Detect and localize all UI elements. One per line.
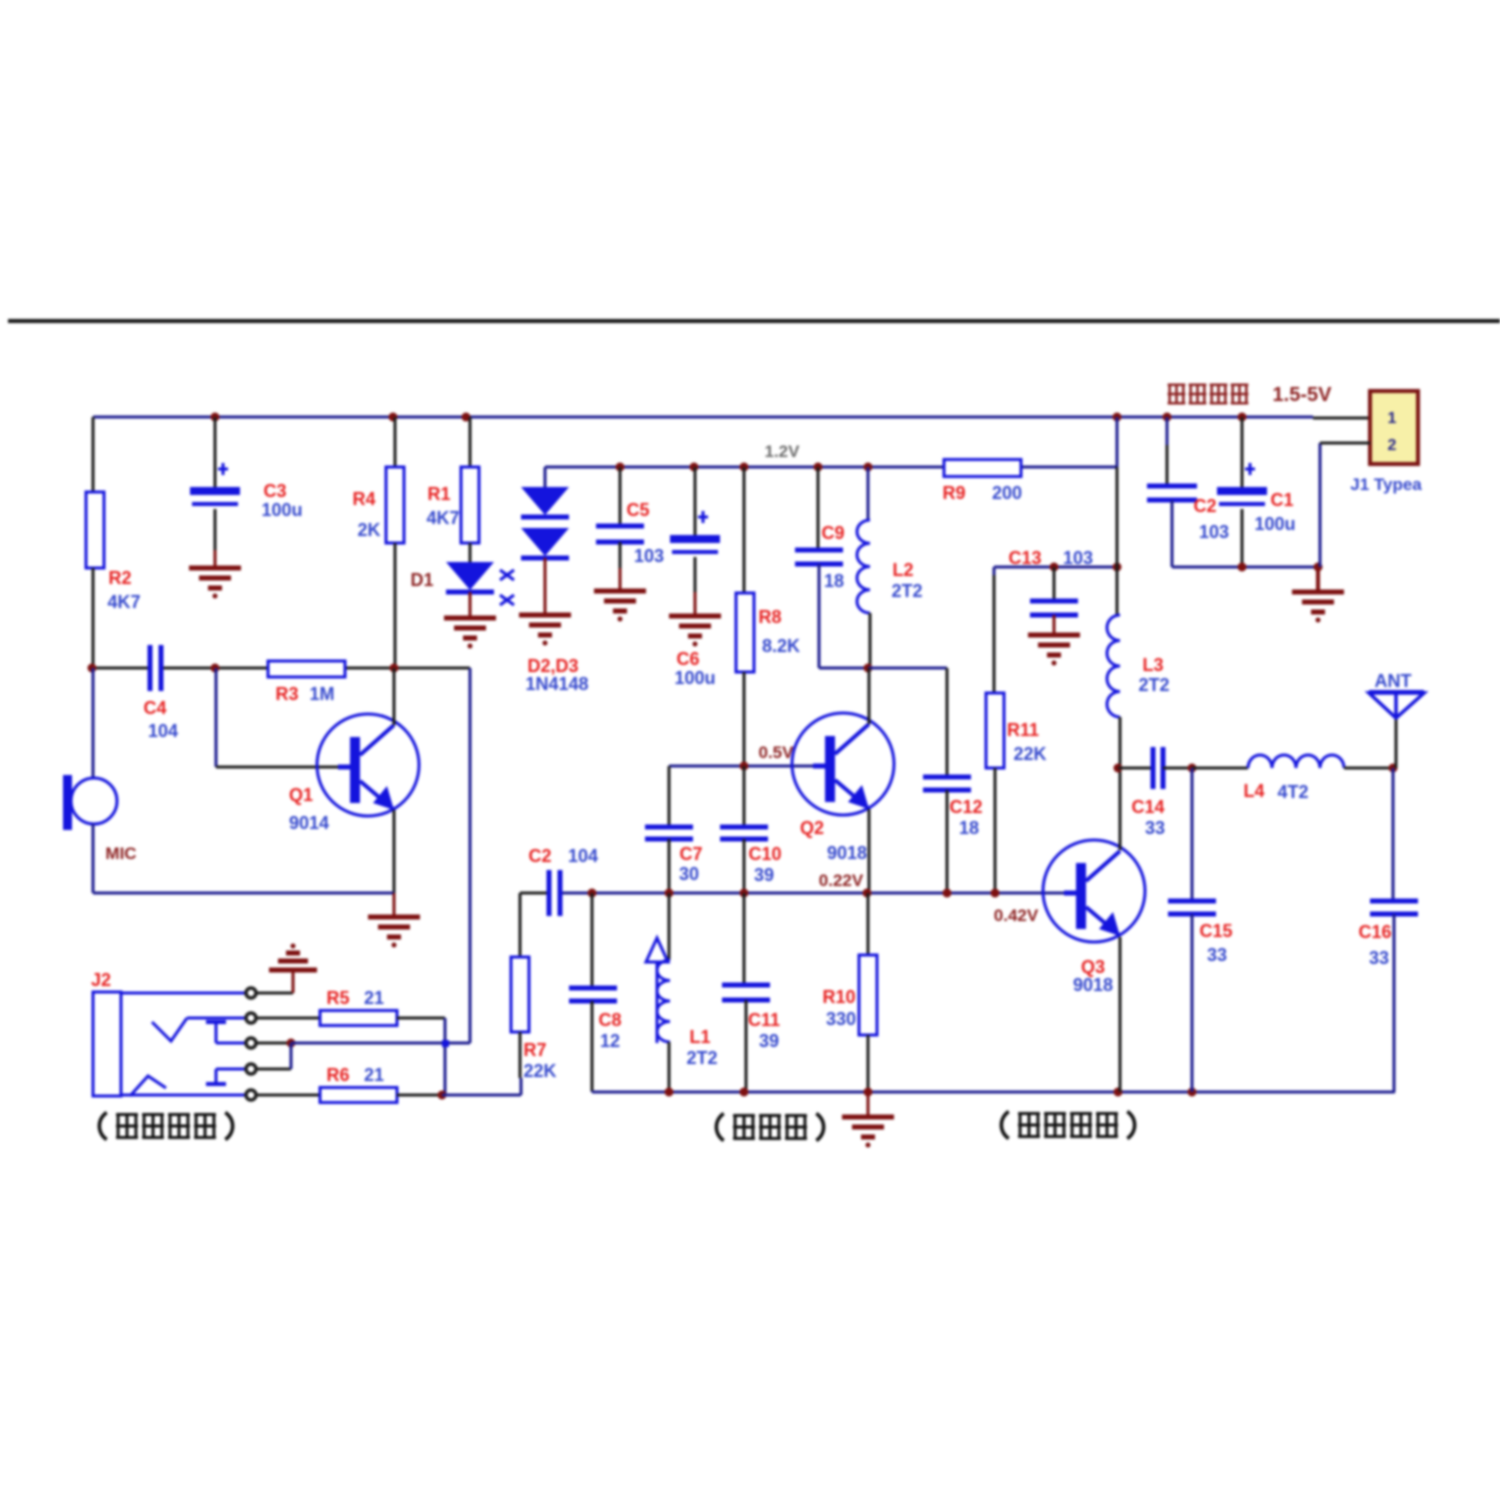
svg-text:330: 330 (826, 1009, 856, 1029)
capacitor C15 (1168, 901, 1233, 965)
wire Q2 emitter (819, 809, 869, 893)
svg-text:R10: R10 (822, 987, 855, 1007)
ground C3 (189, 568, 241, 599)
svg-text:C1: C1 (1270, 490, 1293, 510)
svg-text:C5: C5 (626, 500, 649, 520)
svg-text:1: 1 (1388, 410, 1397, 427)
svg-text:C16: C16 (1358, 922, 1391, 942)
svg-text:R4: R4 (352, 489, 375, 509)
label audio input (99, 1112, 232, 1139)
svg-text:0.5V: 0.5V (759, 743, 795, 762)
wire osc emitter row (520, 889, 1064, 898)
node jack cross (442, 1040, 449, 1047)
wire C9 top lead (817, 467, 820, 549)
ground battery (1292, 567, 1344, 623)
capacitor C7 (645, 766, 703, 893)
capacitor C10 (720, 766, 782, 893)
wire MIC bottom (93, 824, 394, 893)
wire C13 top lead (1053, 567, 1056, 601)
svg-text:100u: 100u (261, 500, 302, 520)
svg-text:R8: R8 (758, 607, 781, 627)
resistor R6 (320, 1065, 397, 1103)
svg-text:39: 39 (759, 1031, 779, 1051)
wire R11 top lead (993, 575, 996, 693)
svg-text:C14: C14 (1131, 797, 1164, 817)
transistor Q2 (792, 713, 894, 863)
antenna ANT (1369, 671, 1424, 768)
connector J1 (1320, 391, 1422, 494)
wire L1 top lead (668, 893, 671, 960)
wire 1.2V rail (545, 442, 1117, 467)
capacitor C11 (722, 985, 780, 1051)
wire C3 bottom lead (214, 509, 217, 568)
svg-text:R1: R1 (427, 484, 450, 504)
wire audio feed vertical (469, 668, 472, 1043)
svg-text:Q3: Q3 (1081, 957, 1105, 977)
inductor L4 (1243, 755, 1344, 802)
resistor R4 (352, 467, 404, 543)
wire C5 bottom lead (619, 542, 622, 591)
diode D1 LED (410, 562, 514, 605)
resistor R10 (822, 955, 877, 1035)
svg-text:L1: L1 (689, 1027, 710, 1047)
wire C6 bottom lead (694, 557, 697, 616)
svg-text:R2: R2 (108, 568, 131, 588)
svg-text:2: 2 (1388, 437, 1397, 454)
wire D2 top (544, 467, 547, 487)
wire pin4 (256, 1043, 291, 1069)
resistor R7 (511, 957, 557, 1081)
svg-text:4T2: 4T2 (1277, 782, 1308, 802)
capacitor C14 (1131, 747, 1165, 838)
ground main (842, 1092, 894, 1148)
svg-text:33: 33 (1207, 945, 1227, 965)
svg-text:39: 39 (754, 865, 774, 885)
wire battery drop (1116, 417, 1119, 615)
capacitor C4 (143, 645, 178, 741)
resistor R2 (86, 492, 141, 612)
svg-text:ANT: ANT (1375, 671, 1412, 691)
capacitor C2 battery (1147, 486, 1229, 542)
svg-text:C9: C9 (821, 523, 844, 543)
ground D1 (444, 618, 496, 649)
svg-text:12: 12 (600, 1031, 620, 1051)
wire C16 top lead (1392, 768, 1395, 901)
svg-text:1.5-5V: 1.5-5V (1273, 384, 1333, 406)
svg-text:22K: 22K (523, 1061, 556, 1081)
wire R6 to mix (397, 1078, 521, 1100)
resistor R3 (268, 661, 345, 704)
wire R4 bottom lead (394, 543, 397, 668)
wire R5 to mix (397, 1018, 445, 1095)
node top rail junctions (211, 413, 1247, 422)
svg-text:R11: R11 (1007, 720, 1039, 740)
svg-text:103: 103 (1199, 522, 1229, 542)
svg-text:D2,D3: D2,D3 (527, 656, 578, 676)
wire C13 bottom lead (1053, 615, 1056, 635)
svg-text:C2: C2 (1193, 496, 1216, 516)
label battery voltage (1168, 384, 1332, 406)
svg-text:33: 33 (1369, 948, 1389, 968)
wire R1-D1 (469, 543, 472, 562)
svg-text:C8: C8 (598, 1010, 621, 1030)
wire C11 top lead (743, 893, 746, 985)
wire Q1 base (216, 668, 338, 767)
svg-text:C4: C4 (143, 698, 166, 718)
wire Q1 collector (393, 668, 396, 725)
label RF PA stage (1001, 1111, 1134, 1138)
capacitor C1 (1217, 463, 1296, 534)
wire Q2 base row (669, 743, 826, 771)
wire L2 bottom lead (864, 613, 873, 673)
pin J2-2 (246, 1013, 256, 1023)
resistor R5 (320, 988, 397, 1026)
jack contact lower throw (206, 1069, 246, 1084)
resistor R9 (942, 460, 1022, 504)
wire Q3 collector (1119, 768, 1122, 850)
ground C6 (669, 616, 721, 647)
wire pin1 to ground (256, 972, 293, 993)
svg-text:100u: 100u (1254, 514, 1295, 534)
wire mic coupling row (93, 667, 470, 670)
ground D2D3 (519, 615, 571, 646)
svg-text:22K: 22K (1013, 744, 1046, 764)
wire R4 top lead (394, 417, 397, 467)
resistor R11 (986, 693, 1047, 768)
top border line (8, 319, 1500, 323)
svg-text:J1 Typea: J1 Typea (1350, 475, 1422, 494)
label oscillator stage (716, 1113, 823, 1140)
pin J2-1 (246, 988, 256, 998)
svg-text:C2: C2 (528, 846, 551, 866)
wire R8 bottom lead (743, 672, 746, 766)
inductor L2 (857, 520, 923, 613)
wire J1 pin2 drop (1319, 443, 1322, 567)
pin J2-5 (246, 1090, 256, 1100)
wire C5 top lead (619, 467, 622, 526)
svg-text:21: 21 (364, 988, 384, 1008)
capacitor C16 (1358, 901, 1418, 968)
wire R7 top lead (519, 893, 522, 957)
wire L2 top lead (867, 467, 870, 520)
svg-text:R7: R7 (523, 1040, 546, 1060)
wire pin3 (256, 1039, 470, 1048)
capacitor C3 (190, 463, 303, 520)
svg-text:C10: C10 (748, 844, 781, 864)
svg-text:C7: C7 (679, 844, 702, 864)
svg-text:9014: 9014 (289, 813, 329, 833)
svg-text:J2: J2 (91, 970, 111, 990)
wire D3 cathode (544, 558, 547, 615)
svg-text:C3: C3 (263, 481, 286, 501)
wire pin5 to R6 (256, 1094, 320, 1097)
pin J2-4 (246, 1064, 256, 1074)
resistor R1 (426, 467, 479, 543)
wire R10 top lead (867, 893, 870, 955)
svg-text:0.22V: 0.22V (819, 871, 864, 890)
svg-text:8.2K: 8.2K (762, 636, 800, 656)
wire L4 to ant (1344, 764, 1398, 773)
wire C9 bottom (819, 564, 868, 668)
jack contact lower (130, 1076, 166, 1096)
capacitor C2 (528, 846, 598, 916)
svg-text:R6: R6 (326, 1065, 349, 1085)
svg-text:MIC: MIC (105, 844, 136, 863)
ground C5 (594, 591, 646, 622)
wire R11 bottom lead (994, 768, 997, 893)
node row668 junctions (88, 664, 399, 673)
wire C3 top lead (214, 417, 217, 487)
diode D2 (521, 487, 569, 517)
svg-text:200: 200 (992, 483, 1022, 503)
wire battery bottom row (1172, 563, 1323, 572)
svg-text:R3: R3 (275, 684, 298, 704)
microphone MIC (63, 775, 137, 863)
svg-text:L2: L2 (892, 560, 913, 580)
wire left drop (92, 417, 95, 492)
diode D3 (521, 528, 589, 694)
node rail2 junctions (616, 463, 873, 472)
svg-text:R9: R9 (942, 483, 965, 503)
svg-text:0.42V: 0.42V (994, 906, 1039, 925)
wire Q3 emitter (1119, 937, 1122, 1092)
svg-text:R5: R5 (326, 988, 349, 1008)
svg-text:9018: 9018 (1073, 975, 1113, 995)
svg-text:1.2V: 1.2V (765, 442, 801, 461)
wire R10 bottom lead (867, 1035, 870, 1092)
svg-text:4K7: 4K7 (107, 592, 140, 612)
wire C1 bottom lead (1241, 509, 1244, 567)
svg-text:2T2: 2T2 (686, 1048, 717, 1068)
svg-text:21: 21 (364, 1065, 384, 1085)
svg-text:4K7: 4K7 (426, 508, 459, 528)
wire C16 bottom lead (1394, 914, 1395, 1092)
capacitor C9 (795, 523, 845, 591)
wire C15 top lead (1191, 768, 1194, 901)
capacitor C5 (596, 500, 664, 566)
wire C2b bottom lead (1171, 500, 1174, 567)
svg-text:2K: 2K (357, 520, 380, 540)
ground Q1 emitter (368, 893, 420, 948)
wire L1 bottom lead (668, 1042, 671, 1092)
wire R2 bottom (92, 568, 95, 668)
svg-text:103: 103 (634, 546, 664, 566)
wire Q1 emitter (393, 810, 396, 893)
wire C15 bottom lead (1191, 914, 1194, 1092)
resistor R8 (736, 593, 800, 672)
svg-text:D1: D1 (410, 570, 433, 590)
wire C13 row (994, 548, 1122, 575)
wire D1 cathode (469, 592, 472, 618)
svg-text:C6: C6 (676, 649, 699, 669)
capacitor C13 (1030, 601, 1078, 615)
svg-text:L4: L4 (1243, 781, 1264, 801)
svg-text:2T2: 2T2 (1138, 675, 1169, 695)
wire C12 bottom lead (946, 790, 949, 893)
inductor L3 (1107, 615, 1170, 717)
wire C11 bottom lead (745, 1000, 748, 1092)
svg-text:C12: C12 (949, 797, 982, 817)
svg-text:33: 33 (1145, 818, 1165, 838)
transistor Q3 (994, 840, 1145, 995)
wire C6 top lead (694, 467, 697, 535)
pin J2-3 (246, 1038, 256, 1048)
svg-text:104: 104 (568, 846, 598, 866)
wire L3 bottom lead (1114, 717, 1123, 773)
svg-text:104: 104 (148, 721, 178, 741)
wire C8 bottom lead (591, 1001, 594, 1091)
svg-text:2T2: 2T2 (891, 581, 922, 601)
wire VCC top rail (93, 417, 1371, 418)
svg-text:30: 30 (679, 864, 699, 884)
svg-text:Q1: Q1 (289, 785, 313, 805)
svg-text:100u: 100u (674, 668, 715, 688)
wire R8 top lead (743, 467, 746, 593)
wire C8 top lead (591, 893, 594, 988)
connector J2 body (91, 970, 246, 1096)
wire C14 left (1118, 767, 1152, 770)
capacitor C6 (670, 511, 720, 688)
svg-text:L3: L3 (1142, 655, 1163, 675)
svg-text:9018: 9018 (827, 843, 867, 863)
capacitor C12 (923, 777, 983, 838)
wire R7 bottom lead (519, 1032, 522, 1078)
svg-text:18: 18 (959, 818, 979, 838)
transistor Q1 (289, 714, 419, 833)
wire C14 right (1163, 764, 1248, 773)
svg-text:1N4148: 1N4148 (525, 674, 588, 694)
jack contact upper (152, 1018, 246, 1041)
wire C1 top lead (1241, 417, 1244, 487)
ground C13 (1028, 635, 1080, 666)
wire pin2 to R5 (256, 1017, 320, 1020)
capacitor C8 (569, 988, 622, 1051)
wire ground rail (592, 1088, 1395, 1097)
wire MIC top (92, 668, 95, 778)
wire C2b top lead (1166, 417, 1169, 486)
wire R1 top lead (469, 417, 472, 467)
svg-text:103: 103 (1063, 548, 1093, 568)
svg-text:C15: C15 (1199, 921, 1232, 941)
svg-text:Q2: Q2 (800, 818, 824, 838)
wire Q2 collector (868, 668, 871, 724)
svg-text:C11: C11 (748, 1010, 780, 1030)
svg-text:1M: 1M (309, 684, 334, 704)
wire osc collector node (868, 668, 947, 777)
inductor L1 (646, 938, 718, 1068)
ground J2 flipped (269, 944, 317, 971)
svg-text:C13: C13 (1008, 548, 1041, 568)
svg-text:18: 18 (824, 571, 844, 591)
jack contact upper throw (206, 1022, 246, 1043)
